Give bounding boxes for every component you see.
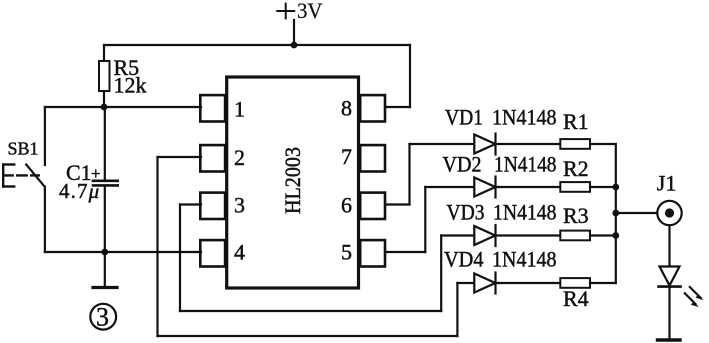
svg-text:5: 5 — [341, 239, 352, 264]
svg-text:J1: J1 — [657, 171, 677, 196]
svg-text:R3: R3 — [563, 203, 589, 228]
svg-text:1N4148: 1N4148 — [492, 105, 557, 130]
svg-text:VD1: VD1 — [445, 105, 483, 130]
svg-text:1: 1 — [234, 96, 245, 121]
svg-text:SB1: SB1 — [8, 139, 39, 159]
svg-text:HL2003: HL2003 — [280, 147, 305, 214]
svg-text:1N4148: 1N4148 — [494, 152, 557, 177]
svg-text:4: 4 — [234, 239, 245, 264]
svg-text:R4: R4 — [563, 286, 589, 311]
svg-text:VD4: VD4 — [444, 247, 484, 272]
svg-text:2: 2 — [234, 145, 245, 170]
svg-text:VD2: VD2 — [443, 152, 482, 177]
svg-text:6: 6 — [341, 192, 352, 217]
svg-text:1N4148: 1N4148 — [492, 247, 557, 272]
svg-text:1N4148: 1N4148 — [493, 200, 557, 225]
svg-text:R1: R1 — [563, 109, 589, 134]
svg-text:R2: R2 — [563, 156, 589, 181]
svg-text:3: 3 — [234, 192, 245, 217]
svg-text:3: 3 — [96, 303, 109, 332]
svg-text:VD3: VD3 — [447, 200, 485, 225]
svg-text:8: 8 — [341, 95, 352, 120]
svg-text:3V: 3V — [297, 0, 323, 23]
svg-text:7: 7 — [341, 144, 352, 169]
svg-text:12k: 12k — [114, 72, 147, 97]
svg-text:4.7μ: 4.7μ — [59, 179, 100, 203]
